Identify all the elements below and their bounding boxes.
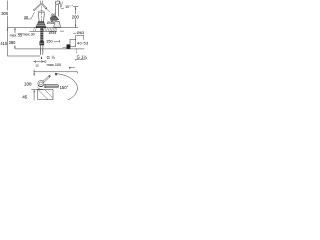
lower arrow down to hose line bbox=[14, 46, 15, 49]
plan view body circles bbox=[38, 80, 44, 86]
side view lever knob bbox=[55, 1, 59, 4]
svg-text:Ø63: Ø63 bbox=[77, 30, 85, 35]
svg-text:300: 300 bbox=[1, 11, 9, 16]
side view spout bbox=[50, 16, 58, 21]
swivel arc with arrow bbox=[55, 73, 78, 100]
svg-text:10°: 10° bbox=[65, 5, 71, 9]
svg-text:150°: 150° bbox=[60, 85, 69, 90]
svg-text:150: 150 bbox=[46, 39, 53, 44]
svg-text:55: 55 bbox=[18, 33, 22, 37]
dimension 15 under hoses bbox=[34, 60, 46, 68]
front view lever bbox=[34, 1, 47, 11]
popup rod side mark bbox=[69, 67, 75, 69]
front view base bbox=[36, 22, 46, 28]
popup waste bracket bbox=[76, 35, 84, 39]
popup waste tick bbox=[73, 32, 75, 34]
svg-text:45: 45 bbox=[22, 95, 28, 100]
plan reference tick bbox=[31, 89, 43, 91]
popup waste fitting bbox=[70, 39, 76, 46]
hose connection reference line bbox=[15, 48, 84, 50]
dimension 108 upper arrow bbox=[34, 70, 35, 76]
svg-text:15: 15 bbox=[35, 64, 39, 68]
front view cartridge dome bbox=[38, 11, 45, 13]
svg-text:390: 390 bbox=[9, 40, 17, 45]
threaded shank bbox=[40, 28, 43, 41]
bottom view separation line bbox=[34, 72, 78, 74]
svg-text:40-53: 40-53 bbox=[77, 40, 89, 45]
left dimension line 300 bbox=[7, 1, 8, 56]
label 46 with leader bbox=[45, 8, 55, 17]
side view body bbox=[56, 4, 59, 16]
side view 10 degree lines and arc bbox=[60, 1, 64, 9]
dimension 200 line with arrows bbox=[75, 7, 76, 28]
shank nut bbox=[40, 42, 44, 46]
svg-text:max.100: max.100 bbox=[47, 63, 62, 67]
dimension 45 arrow bbox=[34, 90, 35, 100]
svg-text:max.: max. bbox=[10, 33, 18, 37]
front view centerline bbox=[41, 3, 43, 27]
svg-text:200: 200 bbox=[72, 15, 80, 20]
svg-text:415: 415 bbox=[0, 41, 8, 46]
front view body bbox=[39, 13, 45, 22]
svg-text:G 1¼: G 1¼ bbox=[77, 54, 88, 59]
dimension 200 top tick bbox=[73, 6, 78, 8]
plan view lever bbox=[42, 75, 50, 82]
svg-text:36: 36 bbox=[24, 14, 28, 19]
max arrow up to countertop bbox=[14, 28, 15, 34]
connection hoses bbox=[40, 45, 43, 59]
svg-text:Ø34: Ø34 bbox=[49, 30, 57, 35]
svg-text:max.30: max.30 bbox=[23, 32, 35, 36]
countertop surface line bbox=[7, 27, 78, 29]
label 150 with leader bbox=[46, 39, 59, 44]
popup waste centerline bbox=[76, 49, 78, 54]
mounting box with hatch bbox=[38, 87, 53, 99]
label G 1 1/4 bbox=[76, 54, 88, 60]
svg-text:108: 108 bbox=[24, 82, 32, 87]
countertop thickness bottom line bbox=[30, 30, 58, 32]
side view base bbox=[54, 21, 61, 27]
plan view spout bbox=[44, 84, 59, 87]
countertop hatching bbox=[33, 28, 57, 32]
hose end reference line bbox=[7, 55, 40, 57]
svg-text:G ½: G ½ bbox=[47, 55, 56, 60]
svg-text:Ø48: Ø48 bbox=[47, 20, 54, 25]
label 36 with leader bbox=[24, 12, 35, 19]
